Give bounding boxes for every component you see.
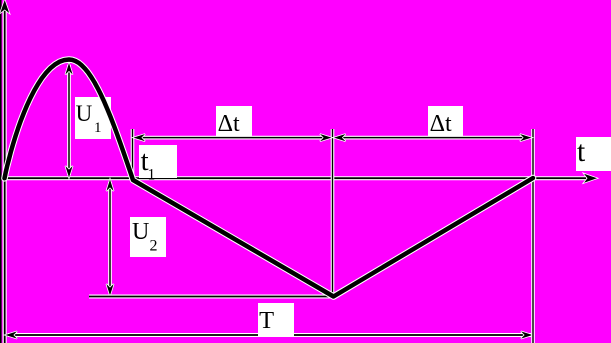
svg-text:U: U [76,101,93,126]
label box t1 [139,145,177,178]
minimum level line [89,295,333,299]
waveform curve [5,60,534,297]
y-axis [0,0,9,343]
dimension delta-t arrow 2 [334,134,532,141]
dimension U1 arrow [65,63,72,178]
dimension T arrow line [6,331,533,338]
svg-text:T: T [259,307,274,334]
label box t (axis) [576,137,611,171]
tick at t1 [131,129,135,178]
label box U2 [130,217,166,257]
svg-text:2: 2 [150,238,158,255]
svg-text:Δt: Δt [218,111,240,137]
svg-text:Δt: Δt [430,111,452,137]
left border line [0,0,2,343]
svg-text:t: t [577,136,586,168]
svg-text:U: U [132,219,149,245]
x-axis [4,174,597,183]
dimension delta-t arrow 1 [134,134,332,141]
tick at triangle minimum [331,129,335,296]
dimension U2 arrow [106,180,113,296]
label box T [258,303,294,336]
label box delta-t 2 [428,106,463,138]
tick at period end [531,129,535,343]
label box delta-t 1 [216,106,252,138]
svg-text:1: 1 [148,166,156,183]
label box U1 [75,97,111,139]
svg-text:1: 1 [94,120,102,136]
